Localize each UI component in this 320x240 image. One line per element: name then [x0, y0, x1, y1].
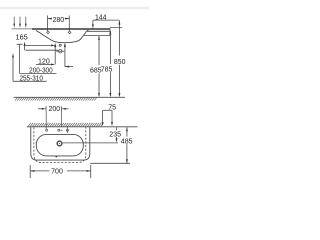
- svg-text:850: 850: [114, 59, 126, 66]
- svg-text:200-300: 200-300: [29, 67, 53, 74]
- svg-text:165: 165: [16, 34, 28, 41]
- svg-text:75: 75: [108, 104, 116, 111]
- svg-text:255-310: 255-310: [19, 75, 43, 82]
- svg-text:485: 485: [121, 139, 133, 146]
- svg-text:280: 280: [52, 17, 64, 24]
- svg-text:235: 235: [109, 131, 121, 138]
- svg-text:200: 200: [49, 106, 61, 113]
- svg-text:785: 785: [101, 66, 113, 73]
- svg-text:144: 144: [95, 14, 106, 21]
- svg-text:700: 700: [51, 168, 63, 175]
- svg-text:120: 120: [38, 58, 50, 65]
